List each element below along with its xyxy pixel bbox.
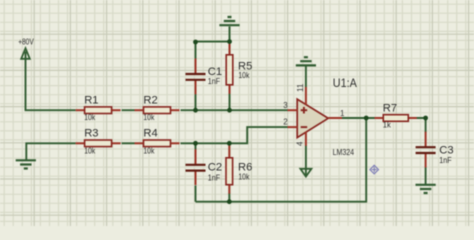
resistor R5 (vertical) [226, 44, 233, 94]
svg-text:C1: C1 [208, 66, 222, 78]
wire: bottom feedback run up to output [196, 118, 367, 202]
wire: row2 left corner + down to ground [26, 143, 75, 160]
wire: R5 bottom to row1 [229, 93, 231, 110]
svg-text:10k: 10k [143, 147, 155, 156]
op-amp pin 11 stub [305, 87, 307, 105]
wire: row2 from R4 to jog up to pin2 [181, 127, 288, 143]
op-amp pin 1 stub (output) [328, 117, 342, 119]
junction dot 3 [193, 108, 198, 113]
svg-text:2: 2 [283, 117, 288, 126]
ground: top (above R5 column) [219, 17, 239, 25]
svg-text:R1: R1 [84, 94, 98, 106]
resistor R4 [135, 140, 180, 147]
svg-text:LM324: LM324 [333, 147, 355, 157]
svg-text:R4: R4 [143, 128, 157, 140]
op-amp U1 LM324 [297, 99, 328, 137]
svg-text:10k: 10k [143, 113, 155, 122]
svg-text:R7: R7 [383, 103, 397, 115]
svg-text:U1:A: U1:A [333, 76, 357, 90]
junction dot 5 [193, 141, 198, 146]
origin marker (blue) [370, 165, 379, 174]
svg-text:10k: 10k [84, 113, 96, 122]
svg-text:1: 1 [340, 109, 345, 118]
capacitor C1 [186, 59, 206, 95]
ground: left (row2) [16, 160, 36, 168]
wire: C1 bottom to row1 [195, 94, 197, 111]
junction dot 7 [227, 199, 232, 204]
svg-text:1nF: 1nF [208, 77, 220, 86]
ground arrow: below opamp pin4 [300, 169, 311, 177]
wire: C3 bottom to ground [425, 168, 427, 185]
junction dot 6 [227, 141, 232, 146]
wire: +80V stem down to row1 [25, 52, 27, 111]
svg-text:C2: C2 [208, 162, 222, 174]
op-amp pin 4 stub [305, 132, 307, 146]
svg-text:11: 11 [296, 83, 305, 92]
svg-text:+80V: +80V [18, 38, 34, 47]
wire: row2 between R3 and R4 [122, 142, 135, 144]
wire: opamp output to R7 and C3 [342, 117, 426, 119]
junction dot 2 [227, 39, 232, 44]
svg-text:10k: 10k [84, 147, 96, 156]
resistor R6 (vertical) [226, 145, 233, 194]
wire: C3 top stub from output [425, 118, 427, 133]
junction dot 4 [227, 108, 232, 113]
wire: pin4 to ground arrow [305, 146, 307, 176]
svg-text:4: 4 [296, 141, 305, 146]
wire: R6 bottom to bottom wire [228, 193, 230, 202]
wire: pin11 ground stem [305, 66, 307, 87]
ground: below C3 [416, 185, 436, 193]
junction dot 9 [423, 116, 428, 121]
resistor R3 [76, 140, 121, 147]
wire: C2 bottom to bottom wire [195, 143, 197, 201]
power terminal +80V [18, 38, 34, 59]
svg-text:C3: C3 [439, 144, 453, 156]
junction dot 1 [193, 40, 198, 45]
svg-text:3: 3 [283, 101, 288, 110]
capacitor C3 [416, 132, 436, 168]
junction dot 8 [364, 116, 369, 121]
ground: above opamp pin11 [296, 57, 316, 65]
svg-text:1nF: 1nF [439, 156, 451, 165]
svg-text:R2: R2 [143, 94, 157, 106]
wire: top net gnd to C1/R5 [196, 27, 230, 60]
resistor R1 [76, 107, 121, 114]
wire: row1 horizontal segments (R1-R2 chain to pin3) [25, 109, 288, 111]
svg-text:10k: 10k [238, 71, 250, 80]
resistor R7 [375, 115, 417, 122]
svg-text:1nF: 1nF [208, 173, 220, 182]
svg-text:R3: R3 [84, 128, 98, 140]
resistor R2 [135, 107, 180, 114]
svg-text:10k: 10k [238, 173, 250, 182]
op-amp pin 2 stub [288, 126, 298, 128]
op-amp pin 3 stub [288, 109, 298, 111]
capacitor C2 [186, 149, 206, 185]
svg-text:1k: 1k [383, 121, 392, 130]
